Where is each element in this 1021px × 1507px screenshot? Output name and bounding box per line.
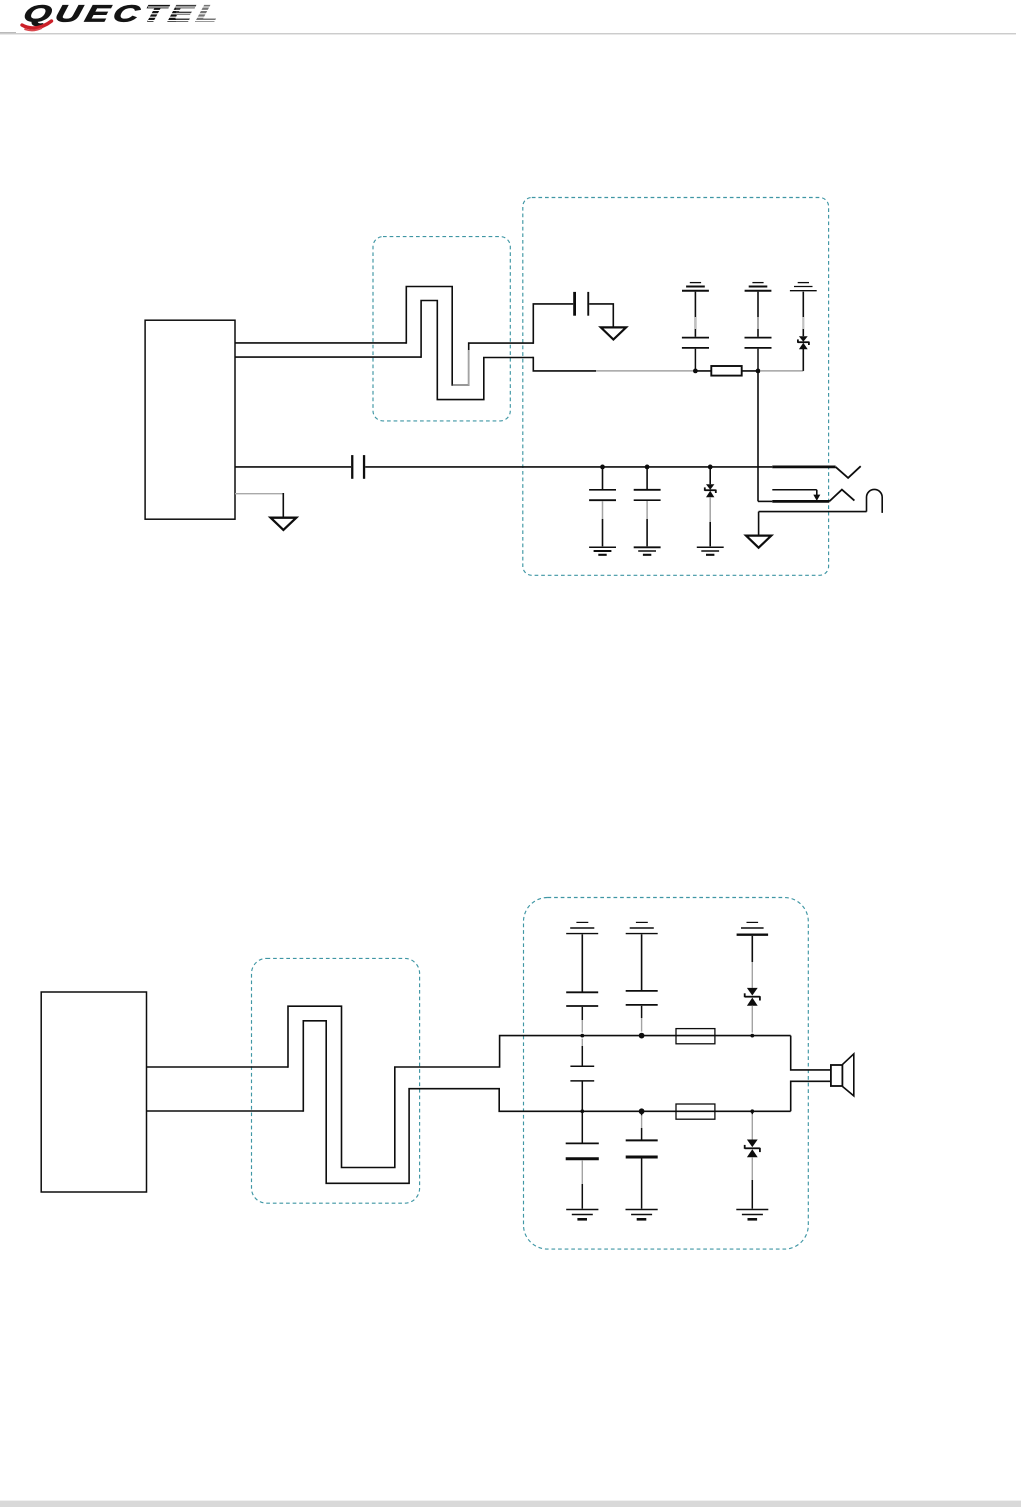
- jack detect switch line: [772, 489, 817, 491]
- dashed layout box (differential routing) bottom circuit: [252, 958, 420, 1203]
- capacitor C11 plates: [626, 1140, 658, 1157]
- ground triangle at C1: [601, 327, 626, 339]
- footer bar: [0, 1501, 1021, 1507]
- Quectel logo wordmark: [21, 1, 227, 31]
- wire stem MIC to C5: [602, 467, 604, 489]
- wire meander inner trace: [421, 301, 533, 400]
- wire stem bottom bus to C10: [581, 1111, 583, 1142]
- wire meander inner trace bottom: [303, 1021, 790, 1184]
- wire junction1 to resistor R1: [695, 370, 711, 372]
- wire C5 to ground (part gray): [602, 501, 604, 519]
- inverted chassis ground above C3: [745, 283, 772, 291]
- wire stem ground to D3 (part gray): [751, 936, 753, 962]
- resistor R3: [676, 1104, 715, 1119]
- headset jack J1 tip contact: [772, 465, 835, 468]
- jack switch arrow: [816, 490, 818, 495]
- capacitor C8 plates: [626, 991, 658, 1005]
- wire D4 to ground (part gray): [751, 1157, 753, 1180]
- wire stem ground to C7: [581, 934, 583, 991]
- wire SPK+ meander exit up to coupling cap: [533, 304, 573, 344]
- wire sleeve to ground: [758, 512, 760, 536]
- wire meander outer trace: [406, 287, 533, 385]
- wire stem MIC to C6: [646, 467, 648, 489]
- junction node MIC c: [708, 465, 713, 470]
- ground triangle at jack sleeve: [746, 536, 771, 548]
- junction node bottom bus c: [750, 1109, 754, 1113]
- junction node top bus b: [639, 1033, 645, 1039]
- resistor R2: [676, 1029, 715, 1044]
- capacitor C4 (series MIC coupling) plates: [351, 455, 353, 479]
- capacitor C10 plates: [566, 1143, 599, 1158]
- wire bottom bus to speaker -: [791, 1081, 831, 1111]
- wire stem ground to D1: [802, 292, 804, 337]
- junction node top bus a: [580, 1034, 584, 1038]
- wire node gray segment junction2 to TVS D1: [761, 370, 804, 372]
- wire D3 to top bus (gray): [751, 1006, 753, 1033]
- inverted chassis ground above D3: [737, 922, 769, 934]
- wire C7 to top bus (part gray): [581, 1007, 583, 1020]
- wire SPK2- from U2 to meander: [147, 1110, 304, 1112]
- jack ring spring: [829, 490, 854, 502]
- junction node SPK2: [756, 369, 761, 374]
- capacitor C1 (series, to ground) left plate: [573, 292, 576, 316]
- wire MIC line from C4 to jack: [365, 466, 772, 468]
- wire stem ground to C2: [694, 292, 696, 337]
- junction node MIC b: [645, 465, 650, 470]
- ground under C6: [634, 547, 661, 555]
- ground under C11: [626, 1210, 658, 1220]
- wire SPK+ from U1 to meander: [235, 342, 406, 344]
- capacitor C7 plates: [566, 992, 598, 1006]
- ground under C10: [566, 1210, 598, 1220]
- ground stub wire (gray) from U1: [235, 493, 283, 495]
- wire node line gray segment to junction 1: [596, 370, 694, 372]
- capacitor C5 plates: [589, 490, 616, 500]
- wire mid capacitor stem upper (part gray): [581, 1039, 583, 1048]
- wire stem bottom bus to C11 (part gray): [641, 1115, 643, 1128]
- inverted chassis ground above C7: [566, 922, 598, 933]
- wire D1 to node line: [802, 349, 804, 371]
- wire stem MIC to D2: [709, 467, 711, 484]
- inverted chassis ground above C8: [626, 922, 658, 933]
- wire SPK2+ from U2 to meander: [147, 1066, 289, 1068]
- logo red swoosh: [22, 21, 52, 28]
- junction node bottom bus b: [639, 1108, 645, 1114]
- dashed layout box (differential routing) top circuit: [373, 237, 510, 421]
- capacitor C3 plates: [745, 338, 772, 348]
- dashed layout box (speaker components) bottom circuit: [524, 898, 809, 1250]
- module U1: [145, 320, 235, 519]
- jack plug hook: [867, 489, 883, 512]
- TVS diode D1 (bidirectional): [799, 336, 808, 349]
- wire C2 to junction: [694, 349, 696, 369]
- TVS diode D4 (bidirectional): [747, 1140, 758, 1158]
- capacitor C1 right plate: [587, 292, 589, 316]
- wire mid capacitor stem lower: [581, 1082, 583, 1112]
- speaker cone: [842, 1054, 853, 1096]
- capacitor C6 plates: [634, 490, 661, 500]
- wire SPK feed vertical junction2 to jack ring: [757, 373, 759, 501]
- wire ground drop: [282, 493, 284, 517]
- wire R1 to junction2: [742, 370, 758, 372]
- junction node bottom bus a: [580, 1109, 584, 1113]
- wire SPK- from U1 to meander: [235, 356, 421, 358]
- wire C6 to ground (part gray): [646, 501, 648, 519]
- junction node SPK1: [693, 369, 698, 374]
- TVS diode D3 (bidirectional): [747, 988, 758, 1006]
- capacitor C2 plates: [682, 338, 709, 348]
- jack tip spring: [836, 466, 861, 478]
- inverted chassis ground above C2: [682, 283, 709, 291]
- module U2: [41, 992, 146, 1192]
- wire stem ground to C8: [641, 934, 643, 990]
- wire top bus to speaker +: [791, 1036, 831, 1070]
- wire stem bottom bus to D4 (gray): [751, 1114, 753, 1139]
- wire C10 to ground (part gray): [581, 1160, 583, 1184]
- wire C3 to junction: [757, 349, 759, 369]
- junction node top bus c: [750, 1034, 754, 1038]
- wire MIC from U1 to C4: [235, 466, 351, 468]
- wire stem ground to C3: [757, 292, 759, 337]
- header rule: [0, 32, 16, 33]
- jack ring contact: [758, 500, 772, 502]
- resistor R1: [711, 366, 741, 376]
- wire meander outer trace bottom: [288, 1006, 791, 1167]
- ground under D2: [697, 547, 724, 555]
- dashed layout box (audio interface components) top circuit: [523, 198, 829, 576]
- capacitor C9 (across buses) plates: [570, 1066, 594, 1081]
- junction node MIC a: [600, 465, 605, 470]
- ground under C5: [589, 547, 616, 555]
- ground under D4: [736, 1210, 768, 1220]
- wire SPK- meander exit down to node line: [533, 357, 596, 371]
- wire C11 to ground: [641, 1159, 643, 1209]
- TVS diode D2 (bidirectional): [706, 484, 714, 497]
- jack sleeve contact: [759, 511, 867, 513]
- wire C8 to top bus (part gray): [641, 1006, 643, 1018]
- wire D2 to ground (part gray): [709, 497, 711, 522]
- wire meander outer gray overlay: [453, 350, 469, 385]
- ground (signal ground triangle) at U1: [271, 518, 297, 530]
- speaker SPK body: [831, 1065, 843, 1086]
- wire C1 to ground drop: [589, 304, 613, 327]
- inverted chassis ground above D1: [790, 283, 817, 291]
